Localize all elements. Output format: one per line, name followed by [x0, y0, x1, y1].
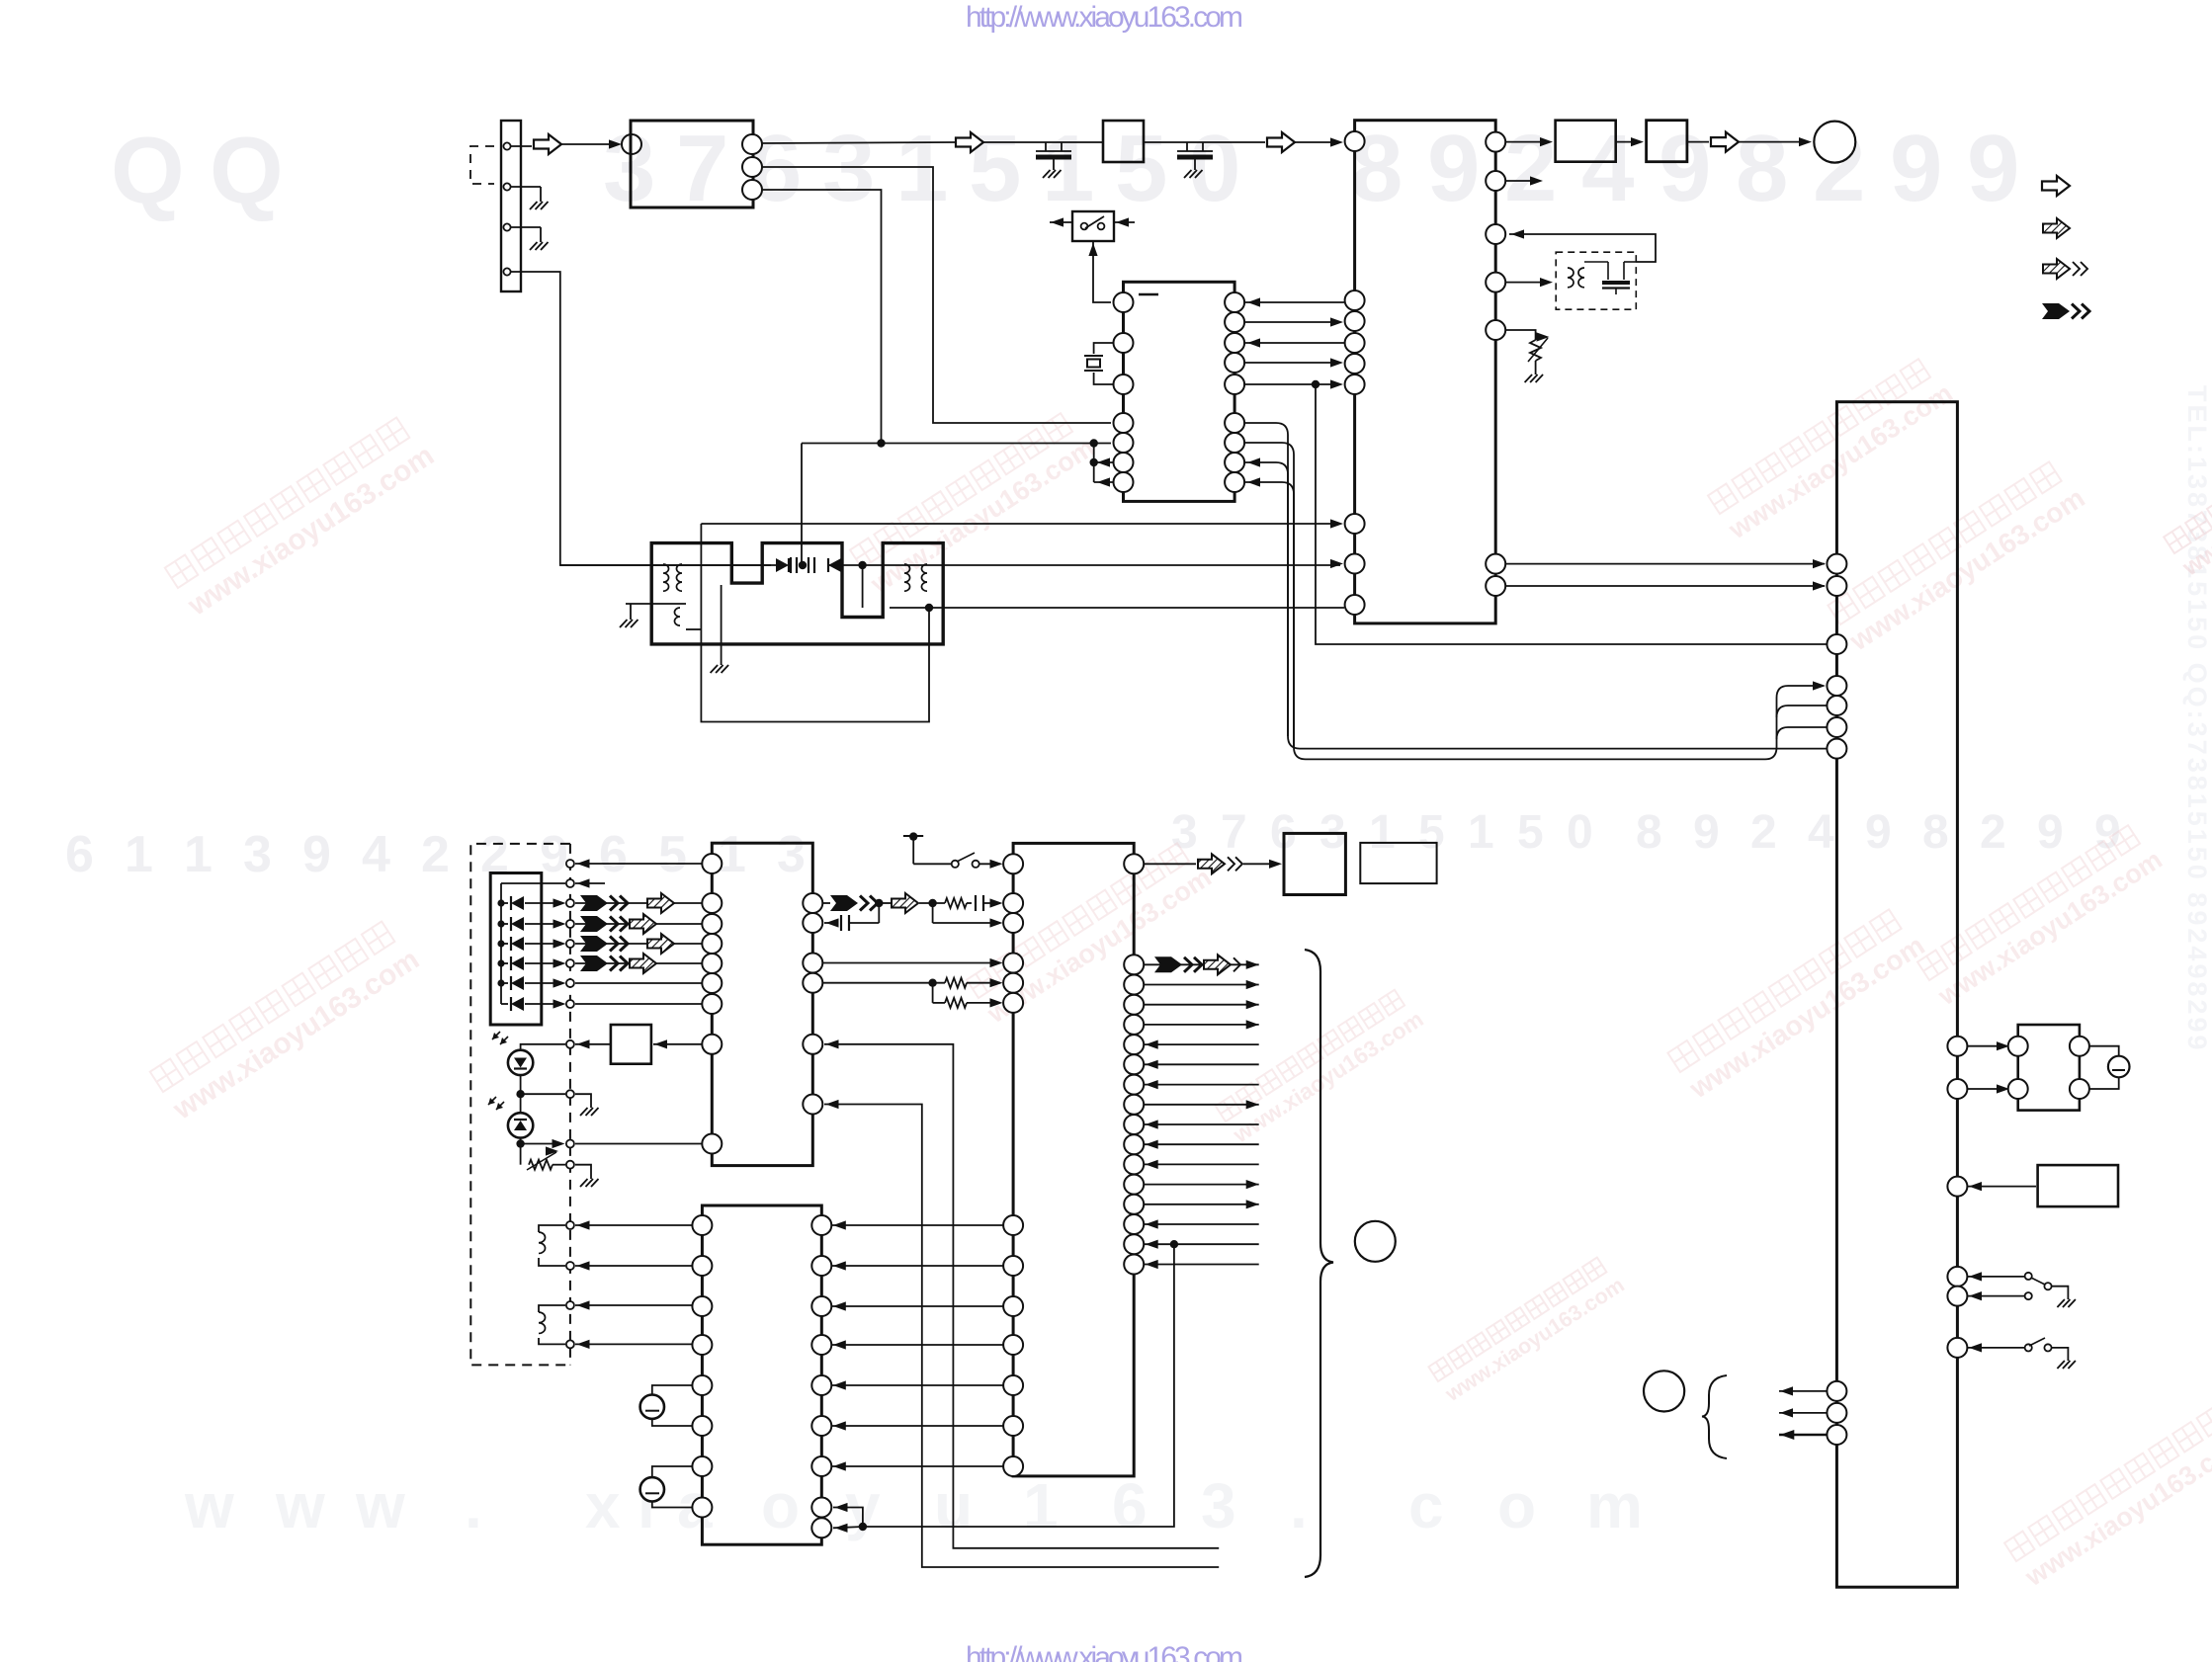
svg-text:9: 9 [302, 826, 331, 883]
svg-text:4: 4 [1581, 116, 1634, 221]
svg-text:w: w [355, 1470, 405, 1541]
svg-text:1: 1 [1042, 116, 1094, 221]
svg-text:9: 9 [1865, 806, 1892, 859]
svg-text:2: 2 [1750, 806, 1777, 859]
svg-text:Q: Q [210, 118, 284, 223]
svg-text:8: 8 [1736, 116, 1788, 221]
svg-text:3: 3 [822, 116, 875, 221]
svg-text:http://www.xiaoyu163.com: http://www.xiaoyu163.com [966, 1641, 1243, 1662]
svg-text:8: 8 [1922, 806, 1949, 859]
svg-text:4: 4 [1808, 806, 1834, 859]
svg-text:TEL:13873815150 QQ:373815150 8: TEL:13873815150 QQ:373815150 892498299 [2182, 385, 2212, 1052]
svg-text:6: 6 [65, 826, 94, 883]
svg-text:w: w [275, 1470, 325, 1541]
svg-text:5: 5 [1115, 116, 1167, 221]
svg-text:5: 5 [969, 116, 1021, 221]
svg-text:w: w [184, 1470, 234, 1541]
svg-text:6: 6 [1112, 1470, 1148, 1541]
svg-text:3: 3 [777, 826, 806, 883]
svg-text:.: . [465, 1470, 482, 1541]
svg-text:x: x [585, 1470, 621, 1541]
svg-text:5: 5 [1418, 806, 1445, 859]
svg-text:c: c [1408, 1470, 1444, 1541]
svg-text:Q: Q [111, 118, 185, 223]
svg-text:0: 0 [1567, 806, 1593, 859]
svg-text:2: 2 [421, 826, 450, 883]
svg-text:1: 1 [718, 826, 746, 883]
svg-text:1: 1 [895, 116, 948, 221]
svg-text:9: 9 [1890, 116, 1942, 221]
svg-text:o: o [761, 1470, 800, 1541]
svg-text:5: 5 [658, 826, 687, 883]
svg-text:9: 9 [1967, 116, 2019, 221]
svg-text:2: 2 [480, 826, 509, 883]
svg-text:9: 9 [1427, 116, 1480, 221]
svg-text:3: 3 [1171, 806, 1198, 859]
svg-text:1: 1 [184, 826, 213, 883]
svg-text:http://www.xiaoyu163.com: http://www.xiaoyu163.com [966, 1, 1243, 34]
svg-text:1: 1 [1369, 806, 1396, 859]
svg-text:3: 3 [1201, 1470, 1236, 1541]
svg-text:y: y [845, 1470, 881, 1541]
svg-text:o: o [1497, 1470, 1536, 1541]
svg-text:2: 2 [1504, 116, 1557, 221]
svg-text:9: 9 [1693, 806, 1720, 859]
svg-text:9: 9 [2037, 806, 2064, 859]
svg-text:2: 2 [1980, 806, 2006, 859]
svg-text:7: 7 [676, 116, 728, 221]
svg-text:.: . [1290, 1470, 1308, 1541]
svg-text:m: m [1586, 1470, 1643, 1541]
svg-text:8: 8 [1636, 806, 1662, 859]
svg-text:1: 1 [1023, 1470, 1059, 1541]
svg-text:1: 1 [125, 826, 153, 883]
svg-text:5: 5 [1517, 806, 1544, 859]
svg-text:9: 9 [1659, 116, 1711, 221]
svg-text:7: 7 [1221, 806, 1247, 859]
svg-text:9: 9 [540, 826, 568, 883]
svg-text:1: 1 [1468, 806, 1494, 859]
svg-text:6: 6 [599, 826, 628, 883]
svg-text:4: 4 [362, 826, 390, 883]
svg-text:3: 3 [243, 826, 272, 883]
svg-text:0: 0 [1188, 116, 1240, 221]
